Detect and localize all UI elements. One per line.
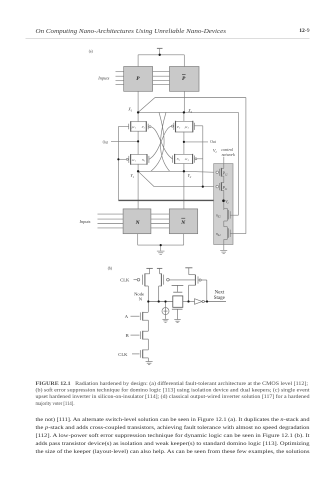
svg-text:the size of the keeper (layout: the size of the keeper (layout-level) ca… xyxy=(36,448,310,455)
svg-text:(a): (a) xyxy=(89,50,94,54)
svg-text:majority voter [114].: majority voter [114]. xyxy=(36,402,75,407)
svg-text:Inputs: Inputs xyxy=(97,76,109,81)
svg-text:Next: Next xyxy=(215,291,225,296)
svg-text:Out: Out xyxy=(210,140,215,144)
svg-text:A: A xyxy=(125,314,129,319)
svg-text:Inputs: Inputs xyxy=(79,219,91,224)
svg-text:adds pass transistor device(s): adds pass transistor device(s) as isolat… xyxy=(36,440,310,447)
svg-text:On Computing Nano-Architecture: On Computing Nano-Architectures Using Un… xyxy=(36,29,227,35)
svg-text:(b): (b) xyxy=(108,266,113,270)
svg-text:upset hardened inverter in sil: upset hardened inverter in silicon-on-in… xyxy=(36,395,311,400)
svg-text:Out: Out xyxy=(103,141,108,145)
svg-text:Y1: Y1 xyxy=(130,174,134,179)
svg-text:Vc: Vc xyxy=(213,148,218,154)
svg-text:X2: X2 xyxy=(187,109,192,114)
svg-text:B: B xyxy=(126,333,129,338)
svg-text:CLK: CLK xyxy=(120,278,130,283)
svg-text:12-9: 12-9 xyxy=(299,28,309,34)
svg-text:(b) soft error suppression tec: (b) soft error suppression technique for… xyxy=(36,389,311,394)
svg-text:network: network xyxy=(222,152,235,157)
svg-text:the p-stack and adds cross-cou: the p-stack and adds cross-coupled trans… xyxy=(36,424,310,431)
svg-text:FIGURE 12.1 Radiation harden: FIGURE 12.1 Radiation hardened by design… xyxy=(36,382,309,387)
svg-text:N: N xyxy=(139,297,143,302)
svg-text:Y2: Y2 xyxy=(188,174,192,179)
svg-text:X1: X1 xyxy=(127,108,132,113)
svg-text:Stage: Stage xyxy=(214,296,226,301)
svg-text:CLK: CLK xyxy=(118,352,128,357)
svg-text:[112]. A low-power soft error: [112]. A low-power soft error suppressio… xyxy=(36,432,311,439)
svg-text:the not) [111]. An alternate s: the not) [111]. An alternate switch-leve… xyxy=(36,416,310,423)
